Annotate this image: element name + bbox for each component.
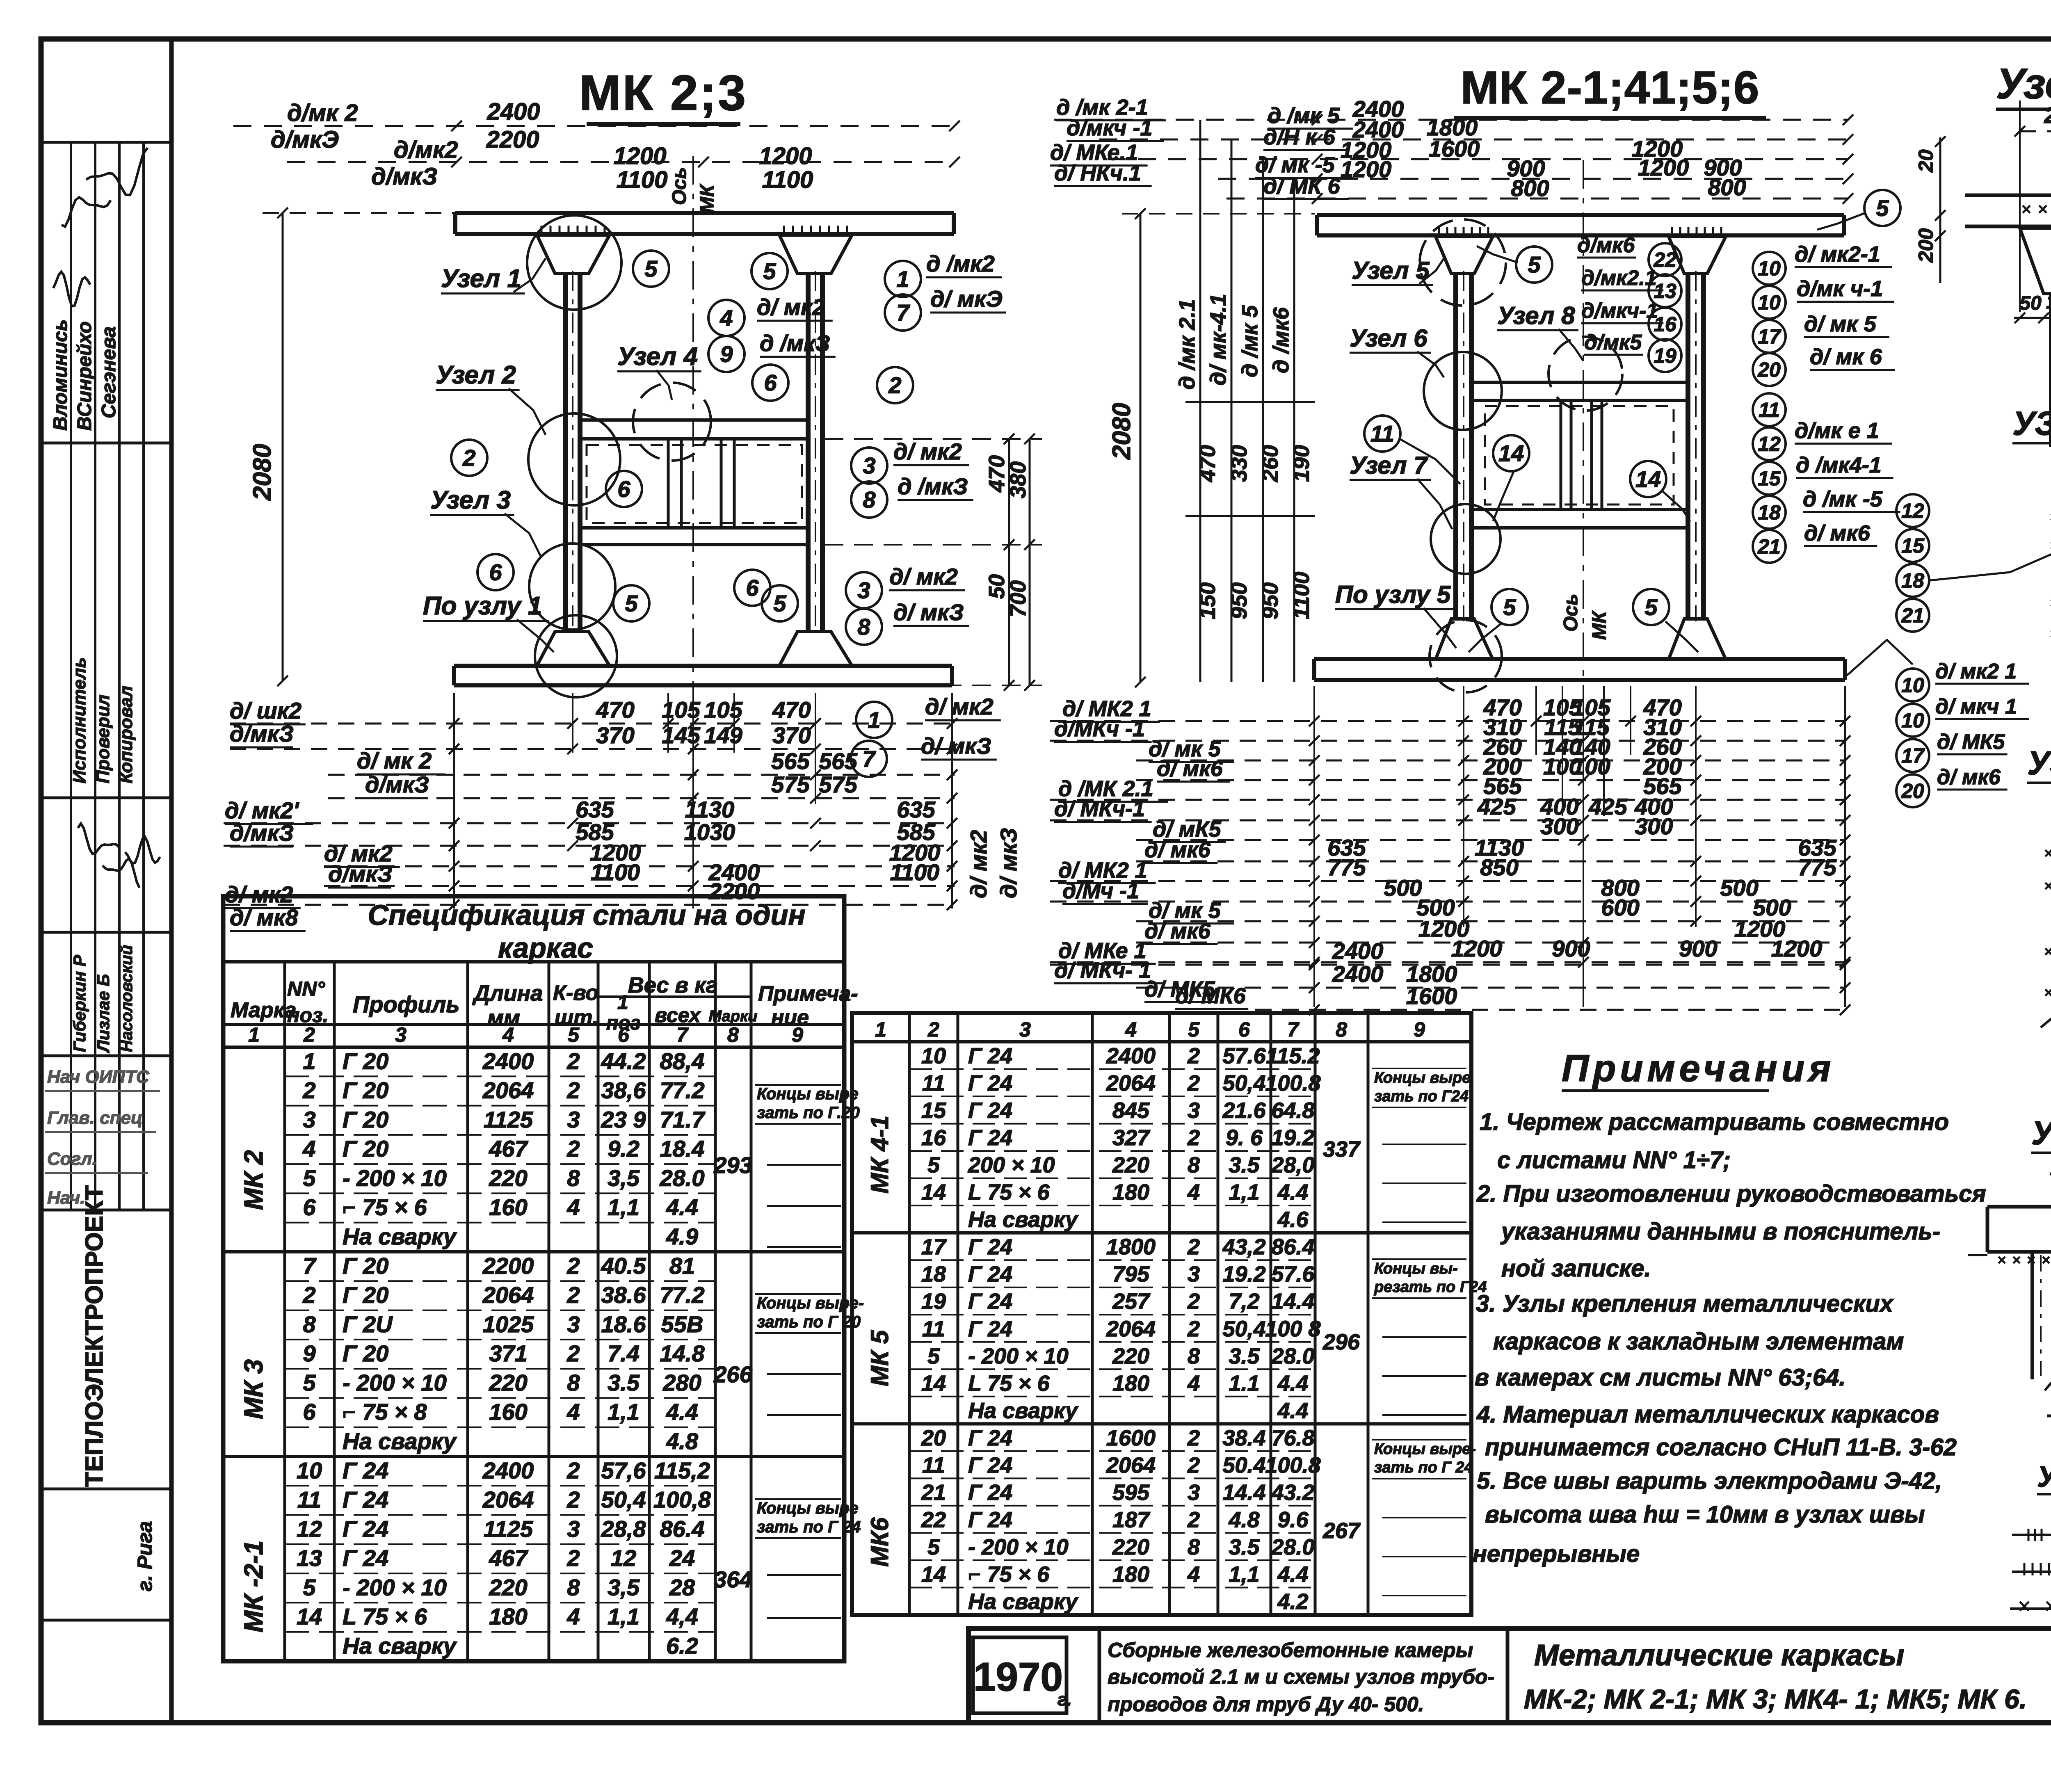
svg-text:425: 425 bbox=[1588, 794, 1627, 820]
svg-text:1125: 1125 bbox=[484, 1516, 533, 1542]
svg-text:1200: 1200 bbox=[759, 143, 812, 169]
svg-text:71.7: 71.7 bbox=[660, 1107, 706, 1132]
svg-text:Узел 2: Узел 2 bbox=[436, 361, 516, 389]
svg-text:9: 9 bbox=[792, 1023, 803, 1046]
svg-text:Нач.: Нач. bbox=[47, 1188, 85, 1208]
detail Uzel 1,5 dims 50 120 50 bbox=[2014, 317, 2051, 319]
svg-text:ТЕПЛОЭЛЕКТРОПРОЕКТ: ТЕПЛОЭЛЕКТРОПРОЕКТ bbox=[80, 1185, 108, 1487]
svg-text:10: 10 bbox=[921, 1044, 946, 1068]
svg-text:1,1: 1,1 bbox=[1229, 1562, 1259, 1587]
svg-text:д /мкЗ: д /мкЗ bbox=[898, 473, 968, 499]
svg-text:10: 10 bbox=[1901, 674, 1924, 697]
svg-text:57.6: 57.6 bbox=[1271, 1262, 1315, 1287]
svg-text:д/ мк2: д/ мк2 bbox=[925, 694, 994, 719]
svg-text:Согл.: Согл. bbox=[47, 1149, 97, 1169]
svg-text:1130: 1130 bbox=[685, 797, 734, 822]
svg-text:По узлу 1: По узлу 1 bbox=[423, 592, 542, 620]
svg-text:Г 20: Г 20 bbox=[343, 1253, 388, 1278]
svg-text:8: 8 bbox=[1188, 1344, 1200, 1368]
d2 right small dims 20 200 bbox=[1939, 137, 1941, 283]
svg-text:д/ мк2: д/ мк2 bbox=[966, 830, 991, 898]
svg-text:6: 6 bbox=[746, 575, 759, 601]
svg-text:14: 14 bbox=[921, 1371, 946, 1396]
svg-text:На сварку: На сварку bbox=[343, 1224, 457, 1249]
svg-text:3: 3 bbox=[857, 578, 870, 603]
svg-text:МК: МК bbox=[697, 183, 718, 213]
svg-text:д /мк 5: д /мк 5 bbox=[1238, 305, 1262, 377]
svg-text:795: 795 bbox=[1112, 1262, 1150, 1287]
svg-text:1600: 1600 bbox=[1429, 136, 1480, 162]
svg-text:160: 160 bbox=[489, 1194, 527, 1220]
svg-text:2080: 2080 bbox=[248, 444, 276, 501]
d2 balloons far right group A bbox=[1896, 494, 1929, 527]
svg-text:5: 5 bbox=[1503, 594, 1516, 620]
d1 top beam bbox=[455, 211, 954, 215]
svg-text:2: 2 bbox=[566, 1253, 580, 1278]
svg-text:22: 22 bbox=[1653, 249, 1676, 272]
svg-text:9: 9 bbox=[1414, 1018, 1425, 1041]
svg-text:Узел 5: Узел 5 bbox=[1352, 257, 1430, 284]
svg-text:Г 24: Г 24 bbox=[343, 1457, 388, 1483]
svg-text:Г 24: Г 24 bbox=[343, 1487, 388, 1513]
svg-text:220: 220 bbox=[2044, 102, 2051, 128]
svg-text:Концы выре-: Концы выре- bbox=[757, 1294, 864, 1312]
svg-text:595: 595 bbox=[1112, 1480, 1150, 1505]
svg-text:Узел 1: Узел 1 bbox=[441, 265, 521, 293]
svg-text:115,2: 115,2 bbox=[654, 1457, 710, 1483]
svg-text:д/ мк2': д/ мк2' bbox=[225, 797, 299, 823]
svg-text:3: 3 bbox=[395, 1023, 407, 1046]
svg-text:180: 180 bbox=[489, 1604, 527, 1630]
svg-text:81: 81 bbox=[669, 1253, 695, 1278]
svg-text:9. 6: 9. 6 bbox=[1226, 1125, 1263, 1150]
legend shop weld bbox=[2012, 1571, 2051, 1573]
svg-text:20: 20 bbox=[1901, 780, 1924, 803]
svg-text:каркас: каркас bbox=[498, 932, 593, 964]
svg-text:180: 180 bbox=[1112, 1562, 1149, 1587]
d2 bottom dimension rows bbox=[1050, 720, 1845, 722]
svg-text:800: 800 bbox=[1511, 175, 1549, 201]
svg-text:4: 4 bbox=[1187, 1371, 1200, 1396]
svg-text:23 9: 23 9 bbox=[601, 1107, 646, 1132]
svg-text:470: 470 bbox=[1195, 445, 1220, 482]
svg-text:775: 775 bbox=[1798, 854, 1836, 880]
svg-text:2: 2 bbox=[1187, 1071, 1200, 1096]
svg-text:6: 6 bbox=[303, 1194, 316, 1220]
svg-text:100,8: 100,8 bbox=[653, 1487, 711, 1513]
svg-text:8: 8 bbox=[1336, 1018, 1347, 1041]
d1 right column bottom shoe bbox=[779, 632, 852, 666]
svg-text:3.5: 3.5 bbox=[608, 1370, 640, 1395]
svg-text:2400: 2400 bbox=[486, 98, 540, 125]
svg-text:149: 149 bbox=[704, 722, 742, 748]
svg-text:д/ шк2: д/ шк2 bbox=[230, 698, 301, 724]
svg-text:2400: 2400 bbox=[482, 1457, 534, 1483]
svg-text:1200: 1200 bbox=[1771, 936, 1823, 961]
svg-text:19.2: 19.2 bbox=[1271, 1125, 1314, 1150]
svg-text:44.2: 44.2 bbox=[601, 1048, 646, 1074]
svg-text:МК6: МК6 bbox=[866, 1517, 893, 1567]
svg-text:Концы выре: Концы выре bbox=[757, 1499, 859, 1517]
detail 4;8 plate bbox=[1987, 1205, 2051, 1209]
svg-text:57.6: 57.6 bbox=[1222, 1044, 1266, 1068]
detail Uzel 1,5 column bbox=[2049, 294, 2051, 447]
d1 right side dimension lines bbox=[1008, 439, 1010, 685]
svg-text:2: 2 bbox=[566, 1077, 580, 1103]
svg-text:Концы выре: Концы выре bbox=[1374, 1069, 1471, 1087]
table 2 group separators and marks bbox=[852, 1231, 1471, 1235]
svg-text:Узел 4: Узел 4 bbox=[617, 342, 698, 371]
svg-text:55В: 55В bbox=[661, 1311, 703, 1337]
svg-text:150: 150 bbox=[1195, 582, 1220, 619]
svg-text:д/мк е 1: д/мк е 1 bbox=[1795, 418, 1879, 443]
svg-text:- 200 × 10: - 200 × 10 bbox=[343, 1370, 447, 1395]
svg-text:Концы выре-: Концы выре- bbox=[1374, 1440, 1476, 1458]
svg-text:1: 1 bbox=[248, 1023, 260, 1046]
svg-text:4: 4 bbox=[566, 1399, 580, 1425]
svg-text:220: 220 bbox=[489, 1165, 527, 1191]
svg-text:1200: 1200 bbox=[1451, 936, 1503, 961]
svg-text:МК 2-1;41;5;6: МК 2-1;41;5;6 bbox=[1461, 62, 1760, 113]
svg-text:8: 8 bbox=[1188, 1535, 1200, 1559]
svg-text:7,2: 7,2 bbox=[1229, 1289, 1259, 1314]
svg-text:280: 280 bbox=[662, 1370, 701, 1395]
detail 4;8 legs bbox=[2030, 1252, 2034, 1379]
svg-text:Г 24: Г 24 bbox=[968, 1480, 1012, 1505]
svg-text:21: 21 bbox=[921, 1480, 946, 1505]
svg-text:Ось: Ось bbox=[1560, 594, 1582, 632]
svg-text:К-во: К-во bbox=[553, 981, 598, 1005]
svg-text:115.2: 115.2 bbox=[1266, 1044, 1320, 1068]
svg-text:470: 470 bbox=[984, 455, 1009, 493]
svg-text:Гиберкин Р: Гиберкин Р bbox=[70, 954, 89, 1052]
svg-text:425: 425 bbox=[1477, 794, 1516, 820]
svg-text:371: 371 bbox=[489, 1340, 527, 1366]
left stamp strip right edge bbox=[169, 39, 174, 1723]
svg-text:принимается согласно СНиП: принимается согласно СНиП 11-В. 3-62 bbox=[1485, 1434, 1957, 1461]
svg-text:18.4: 18.4 bbox=[660, 1136, 705, 1162]
svg-text:8: 8 bbox=[727, 1023, 739, 1046]
svg-text:1,1: 1,1 bbox=[1229, 1180, 1259, 1205]
svg-text:1030: 1030 bbox=[684, 819, 735, 845]
svg-text:8: 8 bbox=[857, 614, 870, 640]
d2 balloons far right group B bbox=[1896, 669, 1929, 701]
svg-text:900: 900 bbox=[1679, 936, 1717, 961]
svg-text:12: 12 bbox=[1901, 500, 1924, 523]
svg-text:2: 2 bbox=[566, 1282, 580, 1308]
svg-text:266: 266 bbox=[713, 1361, 752, 1387]
svg-text:На сварку: На сварку bbox=[968, 1208, 1079, 1232]
svg-text:д /мкЗ: д /мкЗ bbox=[760, 330, 830, 356]
svg-text:2: 2 bbox=[1187, 1453, 1200, 1477]
svg-text:77.2: 77.2 bbox=[660, 1282, 705, 1308]
svg-text:296: 296 bbox=[1322, 1330, 1360, 1354]
d2 left column top shoe bbox=[1436, 237, 1493, 274]
table 2 col9 row lines bbox=[1382, 1144, 1466, 1145]
svg-text:Г 24: Г 24 bbox=[968, 1235, 1012, 1259]
table 1 col9 row lines bbox=[767, 1164, 841, 1166]
d1 node circles bbox=[527, 215, 621, 310]
svg-text:40.5: 40.5 bbox=[601, 1253, 646, 1278]
svg-text:По узлу 5: По узлу 5 bbox=[1335, 581, 1451, 608]
d2 base beam bbox=[1314, 657, 1845, 661]
svg-text:24: 24 bbox=[669, 1545, 695, 1571]
svg-text:3.5: 3.5 bbox=[1229, 1344, 1260, 1368]
svg-text:Узел 4;8: Узел 4;8 bbox=[2031, 1114, 2051, 1152]
svg-text:д/ мк2-1: д/ мк2-1 bbox=[1795, 242, 1880, 267]
svg-text:19: 19 bbox=[1654, 345, 1676, 368]
svg-text:На сварку: На сварку bbox=[343, 1633, 457, 1659]
d2 left column bottom shoe bbox=[1436, 619, 1493, 659]
svg-text:4. Материал металлических: 4. Материал металлических каркасов bbox=[1476, 1401, 1939, 1428]
svg-text:38,6: 38,6 bbox=[601, 1077, 646, 1103]
svg-text:16: 16 bbox=[921, 1125, 946, 1150]
d2 axis centerline bbox=[1583, 160, 1584, 943]
svg-text:22: 22 bbox=[921, 1507, 946, 1532]
svg-text:Г 24: Г 24 bbox=[968, 1262, 1012, 1287]
svg-text:4: 4 bbox=[566, 1194, 580, 1220]
svg-text:470: 470 bbox=[596, 697, 634, 723]
d1 base beam bbox=[454, 664, 952, 668]
svg-text:43.2: 43.2 bbox=[1271, 1480, 1314, 1505]
svg-text:900: 900 bbox=[1552, 936, 1590, 961]
svg-text:Примеча-: Примеча- bbox=[758, 982, 858, 1006]
svg-text:МК-2; МК 2-1; МК 3; МК4- 1; МК: МК-2; МК 2-1; МК 3; МК4- 1; МК5; МК 6. bbox=[1524, 1684, 2027, 1714]
svg-text:непрерывные: непрерывные bbox=[1473, 1541, 1640, 1567]
svg-text:8: 8 bbox=[863, 487, 876, 513]
svg-text:50,4: 50,4 bbox=[601, 1487, 646, 1513]
svg-text:775: 775 bbox=[1327, 854, 1366, 880]
svg-text:600: 600 bbox=[1601, 895, 1639, 920]
svg-text:10: 10 bbox=[1758, 257, 1781, 280]
svg-text:7: 7 bbox=[676, 1023, 689, 1046]
svg-text:7: 7 bbox=[1287, 1018, 1300, 1041]
svg-text:L 75 × 6: L 75 × 6 bbox=[968, 1371, 1050, 1396]
svg-text:57,6: 57,6 bbox=[601, 1457, 646, 1483]
svg-text:5. Все швы варить элект: 5. Все швы варить электродами Э-42, bbox=[1477, 1468, 1942, 1494]
svg-text:1100: 1100 bbox=[617, 167, 668, 193]
svg-text:3.5: 3.5 bbox=[1229, 1535, 1260, 1559]
svg-text:15: 15 bbox=[1758, 467, 1781, 490]
svg-text:100.8: 100.8 bbox=[1265, 1453, 1320, 1477]
svg-text:2064: 2064 bbox=[1106, 1071, 1156, 1096]
svg-text:17: 17 bbox=[1758, 325, 1781, 348]
svg-text:2: 2 bbox=[1187, 1289, 1200, 1314]
svg-text:6: 6 bbox=[303, 1399, 316, 1425]
svg-text:7: 7 bbox=[896, 300, 910, 326]
svg-text:зать по Г 24: зать по Г 24 bbox=[757, 1518, 861, 1536]
svg-text:2: 2 bbox=[1187, 1235, 1200, 1259]
d2 left column bbox=[1453, 274, 1458, 619]
svg-text:Г 24: Г 24 bbox=[968, 1125, 1012, 1150]
svg-text:4.4: 4.4 bbox=[1277, 1398, 1308, 1423]
d2 balloons right column 2 bbox=[1753, 427, 1786, 460]
svg-text:327: 327 bbox=[1112, 1125, 1151, 1150]
svg-text:1200: 1200 bbox=[1638, 155, 1689, 180]
svg-text:1970: 1970 bbox=[973, 1654, 1063, 1699]
svg-text:5: 5 bbox=[763, 258, 776, 284]
d2 left mini dim table lines bbox=[1199, 120, 1201, 682]
d1 middle beam upper bbox=[580, 418, 808, 422]
svg-text:2400: 2400 bbox=[1332, 938, 1384, 964]
svg-text:1,1: 1,1 bbox=[608, 1399, 640, 1425]
svg-text:4.4: 4.4 bbox=[1277, 1180, 1308, 1205]
svg-text:50: 50 bbox=[984, 574, 1009, 599]
svg-text:700: 700 bbox=[1006, 580, 1030, 617]
svg-text:д/мкЗ: д/мкЗ bbox=[365, 772, 429, 797]
svg-text:1600: 1600 bbox=[1406, 983, 1457, 1009]
svg-text:2: 2 bbox=[566, 1136, 580, 1162]
svg-text:Узел 8: Узел 8 bbox=[1497, 302, 1575, 329]
svg-text:180: 180 bbox=[1112, 1180, 1149, 1205]
svg-text:18: 18 bbox=[1758, 501, 1781, 524]
svg-text:Вломинись: Вломинись bbox=[50, 319, 71, 431]
svg-text:21.6: 21.6 bbox=[1222, 1098, 1266, 1123]
d2 balloons right column 1 bbox=[1753, 252, 1786, 285]
svg-text:д /мк6: д /мк6 bbox=[1269, 307, 1293, 373]
svg-text:11: 11 bbox=[922, 1071, 945, 1096]
svg-text:50,4: 50,4 bbox=[1222, 1071, 1265, 1096]
svg-text:3: 3 bbox=[567, 1107, 580, 1132]
d1 right column bbox=[806, 274, 811, 632]
svg-text:проводов для труб Ду 40- 50: проводов для труб Ду 40- 500. bbox=[1108, 1693, 1424, 1716]
svg-text:4: 4 bbox=[1187, 1562, 1200, 1587]
svg-text:МК -2-1: МК -2-1 bbox=[239, 1541, 268, 1632]
svg-text:28,8: 28,8 bbox=[601, 1516, 646, 1542]
svg-text:300: 300 bbox=[1635, 813, 1673, 839]
svg-text:20: 20 bbox=[1914, 149, 1937, 173]
svg-text:86.4: 86.4 bbox=[1271, 1235, 1314, 1259]
svg-text:Марки: Марки bbox=[709, 1008, 758, 1025]
detail 4;8 flag 4 bottom bbox=[2047, 1415, 2051, 1418]
svg-text:3: 3 bbox=[1188, 1480, 1200, 1505]
svg-text:3: 3 bbox=[303, 1107, 315, 1132]
d1 axis centerline bbox=[692, 156, 694, 874]
svg-text:2: 2 bbox=[1187, 1044, 1200, 1068]
d2 middle beam upper bbox=[1471, 381, 1688, 384]
svg-text:Г 24: Г 24 bbox=[343, 1516, 388, 1542]
svg-text:зать по Г24: зать по Г24 bbox=[1374, 1088, 1469, 1105]
svg-text:Г 24: Г 24 bbox=[968, 1071, 1012, 1096]
svg-text:100.8: 100.8 bbox=[1265, 1071, 1320, 1096]
svg-text:Узел 1,5: Узел 1,5 bbox=[1996, 60, 2051, 108]
svg-text:370: 370 bbox=[772, 722, 811, 748]
title block year box bbox=[973, 1637, 1067, 1713]
svg-text:д/ мк8: д/ мк8 bbox=[230, 904, 299, 930]
svg-text:зать по Г 24: зать по Г 24 bbox=[1374, 1459, 1473, 1476]
svg-text:2: 2 bbox=[927, 1018, 939, 1041]
svg-text:5: 5 bbox=[927, 1344, 940, 1368]
svg-text:330: 330 bbox=[1227, 445, 1252, 482]
svg-text:14.4: 14.4 bbox=[1271, 1289, 1314, 1314]
svg-text:д/мк5: д/мк5 bbox=[1584, 331, 1642, 354]
svg-text:14: 14 bbox=[1498, 441, 1524, 466]
svg-text:2: 2 bbox=[1187, 1125, 1200, 1150]
svg-text:14: 14 bbox=[1635, 466, 1661, 492]
svg-text:д /мк -5: д /мк -5 bbox=[1803, 487, 1883, 511]
svg-text:На сварку: На сварку bbox=[343, 1428, 457, 1454]
svg-text:МК 2;3: МК 2;3 bbox=[579, 65, 747, 121]
svg-text:950: 950 bbox=[1227, 582, 1252, 619]
d1 top dimension line 2 bbox=[287, 161, 955, 163]
svg-text:Нач ОИПТС: Нач ОИПТС bbox=[47, 1067, 150, 1087]
svg-text:565: 565 bbox=[771, 748, 810, 774]
stamp strip vertical sub-lines bbox=[70, 142, 72, 1210]
svg-text:220: 220 bbox=[1112, 1153, 1149, 1178]
svg-text:Г 20: Г 20 bbox=[343, 1282, 388, 1308]
svg-text:8: 8 bbox=[1188, 1153, 1200, 1178]
svg-text:Условные обозначения:: Условные обозначения: bbox=[2037, 1461, 2051, 1493]
svg-text:Г 24: Г 24 bbox=[968, 1453, 1012, 1477]
svg-text:8: 8 bbox=[567, 1165, 580, 1191]
svg-text:5: 5 bbox=[303, 1165, 316, 1191]
svg-text:2400: 2400 bbox=[1106, 1044, 1156, 1068]
svg-text:зать по Г.20: зать по Г.20 bbox=[757, 1104, 860, 1122]
svg-text:2064: 2064 bbox=[482, 1077, 534, 1103]
svg-text:Марка: Марка bbox=[231, 998, 297, 1022]
svg-text:2: 2 bbox=[462, 445, 475, 471]
d2 top beam bbox=[1317, 213, 1844, 217]
svg-text:9.2: 9.2 bbox=[608, 1136, 640, 1162]
svg-text:6: 6 bbox=[618, 1023, 630, 1046]
svg-text:2064: 2064 bbox=[482, 1487, 534, 1513]
svg-text:9.6: 9.6 bbox=[1277, 1507, 1309, 1532]
d1 inner opening dashed bbox=[587, 445, 802, 523]
svg-text:д/мк2: д/мк2 bbox=[394, 137, 458, 163]
svg-text:220: 220 bbox=[489, 1370, 527, 1395]
svg-text:50,4: 50,4 bbox=[1222, 1317, 1265, 1341]
svg-text:15: 15 bbox=[921, 1098, 946, 1123]
svg-text:2: 2 bbox=[302, 1282, 315, 1308]
d1 left column top shoe bbox=[537, 235, 610, 274]
svg-text:д/Мч -1: д/Мч -1 bbox=[1062, 879, 1139, 903]
svg-text:2: 2 bbox=[566, 1340, 580, 1366]
svg-text:3: 3 bbox=[1188, 1262, 1200, 1287]
svg-text:470: 470 bbox=[772, 697, 811, 723]
d2 balloons top center column bbox=[1649, 243, 1681, 276]
svg-text:15: 15 bbox=[1901, 534, 1925, 557]
svg-text:г.: г. bbox=[1057, 1689, 1072, 1710]
svg-text:д/ МК5: д/ МК5 bbox=[1937, 730, 2005, 754]
svg-text:1: 1 bbox=[303, 1048, 315, 1074]
svg-text:д/мкЗ: д/мкЗ bbox=[230, 820, 294, 846]
svg-text:ние: ние bbox=[771, 1006, 809, 1030]
detail Uzel 1,5 slab bbox=[1965, 194, 2051, 197]
svg-text:3: 3 bbox=[567, 1311, 580, 1337]
svg-text:д/мкЗ: д/мкЗ bbox=[230, 721, 294, 746]
svg-text:1100: 1100 bbox=[762, 167, 813, 193]
svg-text:10: 10 bbox=[1901, 709, 1924, 732]
svg-text:76.8: 76.8 bbox=[1271, 1426, 1314, 1450]
svg-text:1. Чертеж рассматривать: 1. Чертеж рассматривать совместно bbox=[1480, 1109, 1949, 1135]
svg-text:5: 5 bbox=[568, 1023, 580, 1046]
d2 top dimension stair lines bbox=[1054, 119, 1848, 121]
svg-text:21: 21 bbox=[1901, 604, 1924, 627]
svg-text:Г 20: Г 20 bbox=[343, 1107, 388, 1132]
svg-text:160: 160 bbox=[489, 1399, 527, 1425]
svg-text:14.4: 14.4 bbox=[1222, 1480, 1265, 1505]
svg-text:17: 17 bbox=[921, 1235, 947, 1259]
svg-text:д/Н к 6: д/Н к 6 bbox=[1263, 125, 1336, 149]
svg-text:1: 1 bbox=[875, 1018, 886, 1041]
svg-text:467: 467 bbox=[489, 1545, 528, 1571]
svg-text:100 8: 100 8 bbox=[1265, 1317, 1320, 1341]
svg-text:10: 10 bbox=[297, 1457, 322, 1483]
svg-text:Металлические каркасы: Металлические каркасы bbox=[1534, 1639, 1904, 1672]
svg-text:2: 2 bbox=[1187, 1426, 1200, 1450]
svg-text:12: 12 bbox=[297, 1516, 322, 1542]
svg-text:293: 293 bbox=[713, 1152, 752, 1178]
